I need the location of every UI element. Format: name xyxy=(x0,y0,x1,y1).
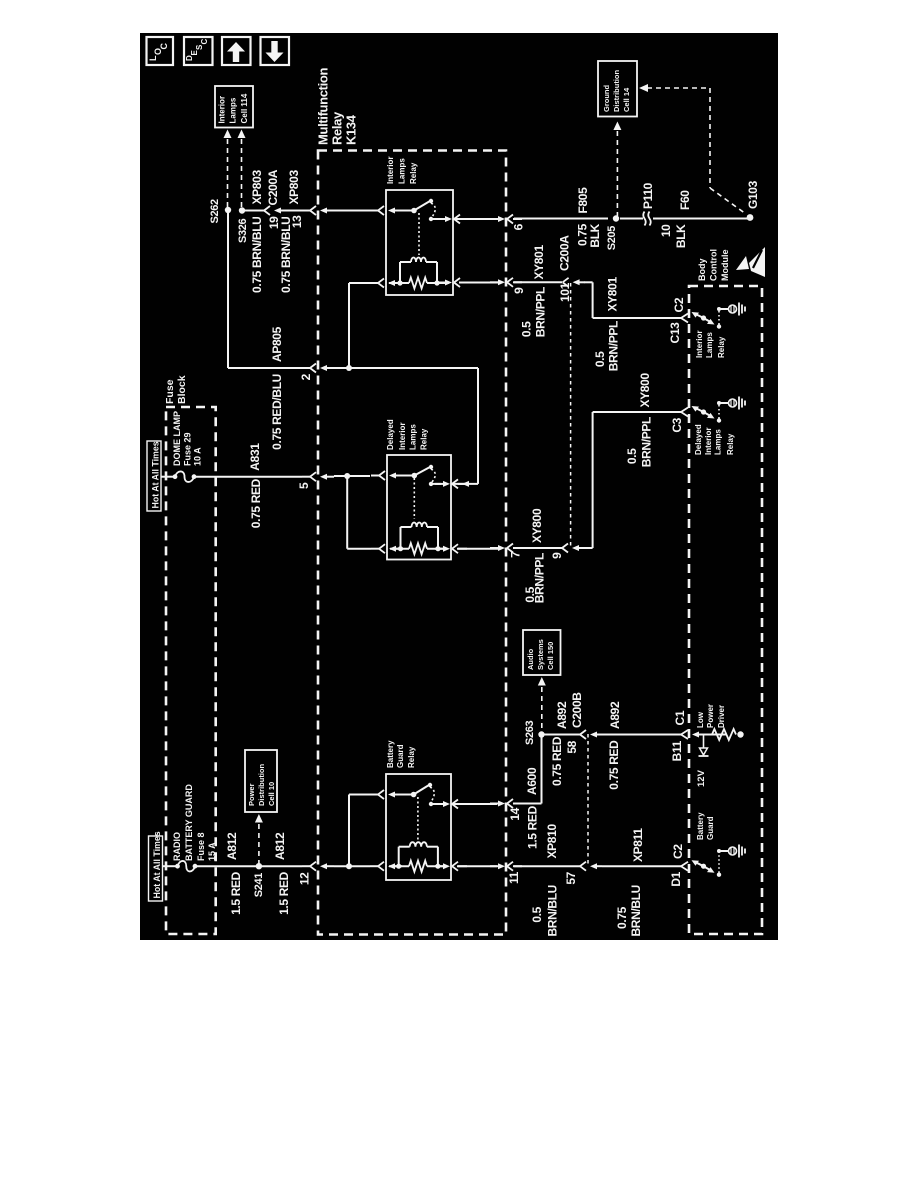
svg-text:BLK: BLK xyxy=(674,224,688,248)
wire pin9 to C200A 101 xyxy=(514,281,562,283)
svg-text:Power: Power xyxy=(706,704,715,728)
wire S241 to K134 pin12 xyxy=(262,865,302,867)
zener 12V xyxy=(703,735,705,749)
svg-text:Interior: Interior xyxy=(386,156,395,184)
relay box Delayed Interior Lamps Relay xyxy=(387,455,451,560)
svg-text:1.5 RED: 1.5 RED xyxy=(229,871,243,915)
svg-text:BRN/PPL: BRN/PPL xyxy=(640,417,654,467)
ground G103 xyxy=(747,214,754,221)
dashed arrow S241 to Cell 10 xyxy=(255,814,263,864)
box Interior Lamps Cell 114 xyxy=(215,86,253,128)
svg-text:BRN/BLU: BRN/BLU xyxy=(546,885,560,937)
relay box Battery Guard Relay xyxy=(386,774,451,880)
svg-text:Cell 10: Cell 10 xyxy=(267,782,276,806)
svg-text:Relay: Relay xyxy=(726,433,735,455)
K134 pin2 entry xyxy=(302,367,310,369)
svg-text:Battery: Battery xyxy=(386,740,395,768)
delayed relay switch xyxy=(412,473,418,479)
svg-text:S205: S205 xyxy=(606,226,618,251)
svg-text:0.5: 0.5 xyxy=(625,448,639,464)
body control module dashed box xyxy=(689,286,762,934)
wire pin6 to S205 xyxy=(514,218,608,220)
svg-text:A812: A812 xyxy=(273,832,287,860)
junction pin2/coil bus xyxy=(346,365,352,371)
delayed relay coil exit xyxy=(435,548,444,550)
label Body Control Module xyxy=(697,249,730,281)
svg-text:XP803: XP803 xyxy=(287,170,301,205)
interior relay switch xyxy=(334,210,376,212)
diagram black panel xyxy=(140,33,778,940)
svg-text:C13: C13 xyxy=(668,322,682,344)
svg-text:XP811: XP811 xyxy=(631,828,645,862)
BCM interior lamps relay xyxy=(681,314,688,323)
svg-text:A831: A831 xyxy=(248,443,262,471)
svg-text:Control: Control xyxy=(709,249,719,281)
wire S263 to C200B 58 xyxy=(544,734,580,736)
svg-text:F60: F60 xyxy=(678,190,692,210)
svg-text:C3: C3 xyxy=(670,417,684,432)
junction delayed coil branch xyxy=(344,473,350,479)
svg-text:BRN/PPL: BRN/PPL xyxy=(607,321,621,371)
svg-text:Relay: Relay xyxy=(330,111,345,145)
connector line C200B xyxy=(587,734,589,864)
battery relay coil xyxy=(417,797,419,842)
svg-text:Hot At All Times: Hot At All Times xyxy=(152,831,162,898)
svg-text:0.5: 0.5 xyxy=(530,906,544,922)
svg-text:7: 7 xyxy=(509,551,523,558)
svg-text:Interior: Interior xyxy=(695,330,704,358)
svg-text:Guard: Guard xyxy=(706,816,715,840)
svg-text:XP810: XP810 xyxy=(545,824,559,859)
svg-text:58: 58 xyxy=(565,740,579,753)
wire C200A to corner xyxy=(584,281,593,283)
svg-text:0.5: 0.5 xyxy=(593,351,607,367)
connector 101 C200A xyxy=(563,278,569,287)
BCM battery guard relay xyxy=(681,862,688,871)
splice S241 xyxy=(256,863,262,869)
svg-text:Lamps: Lamps xyxy=(714,429,723,455)
svg-text:Block: Block xyxy=(176,375,188,404)
wire C200A19 to K134 pin13 xyxy=(286,210,302,212)
svg-text:Systems: Systems xyxy=(536,639,545,670)
svg-text:10 A: 10 A xyxy=(193,447,203,466)
svg-text:A892: A892 xyxy=(555,701,569,729)
svg-text:Interior: Interior xyxy=(398,422,407,450)
svg-text:15 A: 15 A xyxy=(207,842,217,861)
svg-text:Lamps: Lamps xyxy=(398,158,407,184)
svg-text:Distribution: Distribution xyxy=(257,764,266,806)
svg-text:0.75 RED: 0.75 RED xyxy=(607,740,621,790)
relay box Interior Lamps Relay xyxy=(386,190,453,295)
svg-text:Multifunction: Multifunction xyxy=(316,68,331,145)
svg-text:9: 9 xyxy=(512,287,526,294)
svg-text:1.5 RED: 1.5 RED xyxy=(277,871,291,915)
svg-text:Guard: Guard xyxy=(396,744,405,768)
svg-text:10: 10 xyxy=(659,224,673,237)
connector 19 C200A inline xyxy=(264,206,270,215)
svg-text:Relay: Relay xyxy=(409,162,418,184)
delayed relay coil xyxy=(413,478,415,519)
svg-text:Fuse 29: Fuse 29 xyxy=(183,432,193,466)
wire delayed relay coil exit pin7 xyxy=(490,547,499,549)
svg-text:C1: C1 xyxy=(673,710,687,725)
K134 pin5 entry xyxy=(302,476,310,478)
svg-text:Fuse: Fuse xyxy=(164,379,176,404)
svg-text:C200A: C200A xyxy=(558,235,572,271)
svg-text:Lamps: Lamps xyxy=(409,424,418,450)
svg-text:BLK: BLK xyxy=(588,223,602,247)
wire pin12 bus xyxy=(334,865,370,867)
splice S262 xyxy=(225,207,231,213)
svg-text:G103: G103 xyxy=(746,180,760,209)
svg-text:2: 2 xyxy=(299,373,313,380)
svg-text:BATTERY GUARD: BATTERY GUARD xyxy=(184,784,194,861)
svg-text:A600: A600 xyxy=(525,767,539,795)
svg-text:101: 101 xyxy=(558,282,572,302)
svg-text:Cell 114: Cell 114 xyxy=(240,93,249,123)
svg-text:9: 9 xyxy=(550,552,564,559)
svg-text:C: C xyxy=(200,39,209,45)
wire S326 to C200A 19 xyxy=(243,210,264,212)
wire pin5 to delayed relay xyxy=(334,475,370,477)
interior relay coil xyxy=(418,213,420,255)
svg-text:F805: F805 xyxy=(576,187,590,214)
svg-text:Fuse 8: Fuse 8 xyxy=(196,832,206,861)
svg-text:Battery: Battery xyxy=(696,812,705,840)
dashed arrow S326 to Cell 114 xyxy=(238,130,246,210)
svg-text:Delayed: Delayed xyxy=(386,419,395,450)
connector line C200A xyxy=(570,283,572,546)
svg-text:XY801: XY801 xyxy=(606,277,620,312)
wire C200A9 to corner up xyxy=(584,547,593,549)
delayed relay resistor xyxy=(390,548,409,550)
svg-text:Cell 150: Cell 150 xyxy=(546,642,555,670)
delayed relay output exit xyxy=(435,483,444,485)
svg-text:0.75 RED: 0.75 RED xyxy=(249,478,263,528)
svg-text:C: C xyxy=(159,43,169,50)
svg-text:Delayed: Delayed xyxy=(694,424,703,455)
svg-text:K134: K134 xyxy=(344,114,359,145)
svg-text:S263: S263 xyxy=(524,720,536,745)
svg-text:C200B: C200B xyxy=(570,692,584,728)
svg-text:Interior: Interior xyxy=(704,427,713,455)
battery relay switch xyxy=(411,792,417,798)
svg-text:5: 5 xyxy=(297,482,311,489)
wire coil line into interior relay xyxy=(349,282,370,284)
BCM low power driver resistor xyxy=(697,734,712,736)
K134 pin13 entry xyxy=(302,210,310,212)
wire pin2 bus to junction xyxy=(334,367,478,369)
fuse block dashed box xyxy=(166,407,216,934)
button scroll-down xyxy=(261,37,290,65)
wire C200B to BCM D1 xyxy=(602,865,681,867)
interior relay pin9 exit xyxy=(437,282,446,284)
svg-text:Lamps: Lamps xyxy=(229,97,238,123)
svg-text:XY800: XY800 xyxy=(530,508,544,543)
svg-text:BRN/PPL: BRN/PPL xyxy=(534,287,548,337)
svg-text:XP803: XP803 xyxy=(250,170,264,205)
K134 pin6 exit xyxy=(490,218,499,220)
svg-text:1.5 RED: 1.5 RED xyxy=(526,805,540,849)
svg-text:Low: Low xyxy=(696,711,705,728)
box Ground Distribution Cell 14 xyxy=(598,61,637,117)
svg-text:0.75 RED: 0.75 RED xyxy=(550,736,564,786)
fuse F29 DOME LAMP xyxy=(161,411,203,482)
interior relay resistor xyxy=(389,282,409,284)
battery relay resistor xyxy=(389,865,409,867)
button LOC xyxy=(147,37,174,65)
svg-text:XY801: XY801 xyxy=(532,245,546,280)
svg-text:Body: Body xyxy=(697,259,707,282)
svg-text:0.5: 0.5 xyxy=(520,321,534,337)
K134 pin11 exit xyxy=(490,865,499,867)
label Hot At All Times (radio) xyxy=(149,831,163,901)
svg-text:13: 13 xyxy=(290,215,304,228)
wire pin14 to corner up S263 xyxy=(514,803,542,805)
splice S205 xyxy=(613,215,619,221)
junction battery relay branch xyxy=(346,863,352,869)
svg-text:Power: Power xyxy=(247,783,256,806)
svg-text:RADIO: RADIO xyxy=(172,832,182,861)
svg-text:C2: C2 xyxy=(671,844,685,859)
wire S205 to P110 xyxy=(620,218,643,220)
K134 pin14 exit xyxy=(490,803,499,805)
splice S326 xyxy=(239,207,245,213)
wire AP805 to K134 pin2 xyxy=(270,367,302,369)
label Multifunction Relay K134 xyxy=(316,68,359,145)
multifunction relay K134 dashed box xyxy=(318,151,506,935)
svg-text:S262: S262 xyxy=(209,199,221,224)
wire branch up to battery relay switch xyxy=(348,795,350,867)
BCM B11 entry xyxy=(681,730,688,739)
dashed arrow S205 to Cell 14 xyxy=(613,122,621,217)
svg-text:A812: A812 xyxy=(225,832,239,860)
svg-text:6: 6 xyxy=(512,223,526,230)
connector 58 C200B xyxy=(580,730,586,739)
logo triangle mark xyxy=(736,247,765,277)
svg-text:Relay: Relay xyxy=(420,428,429,450)
svg-text:BRN/PPL: BRN/PPL xyxy=(533,553,547,603)
wire C200B to BCM B11 xyxy=(602,734,681,736)
svg-text:Relay: Relay xyxy=(407,746,416,768)
box Audio Systems Cell 150 xyxy=(523,630,561,675)
label Fuse Block xyxy=(164,375,188,404)
svg-text:BRN/BLU: BRN/BLU xyxy=(629,885,643,937)
svg-text:12V: 12V xyxy=(696,769,707,787)
dashed arrow S262 to Cell 114 xyxy=(224,130,232,209)
svg-text:Relay: Relay xyxy=(717,336,726,358)
svg-text:57: 57 xyxy=(564,871,578,884)
wire fuse29 to K134 pin5 xyxy=(194,476,302,478)
button scroll-up xyxy=(222,37,251,65)
interior relay pin6 exit xyxy=(437,218,446,220)
grommet P110 xyxy=(643,212,651,226)
svg-text:Lamps: Lamps xyxy=(705,332,714,358)
svg-text:Driver: Driver xyxy=(717,705,726,728)
wire S262 down to corner xyxy=(227,213,229,368)
wire pin7 to C200A 9 xyxy=(514,547,562,549)
svg-text:Distribution: Distribution xyxy=(612,70,621,112)
label Hot At All Times (dome) xyxy=(147,441,161,511)
svg-text:C2: C2 xyxy=(672,297,686,312)
svg-text:14: 14 xyxy=(508,807,522,820)
battery relay output exit xyxy=(435,803,444,805)
battery relay coil exit pin11 xyxy=(435,865,444,867)
svg-text:XY800: XY800 xyxy=(638,373,652,408)
wire P110 to G103 xyxy=(653,218,748,220)
svg-text:Hot At All Times: Hot At All Times xyxy=(151,441,161,508)
K134 pin12 entry xyxy=(302,865,310,867)
svg-text:0.75: 0.75 xyxy=(615,906,629,929)
svg-text:C200A: C200A xyxy=(266,169,280,205)
svg-text:0.75 BRN/BLU: 0.75 BRN/BLU xyxy=(250,217,264,293)
svg-text:Cell 14: Cell 14 xyxy=(622,87,631,112)
dashed path G103 to Cell 14 xyxy=(639,84,746,214)
wire pin11 to C200B 57 xyxy=(514,865,580,867)
wire branch down to delayed coil xyxy=(346,476,348,549)
button DESC xyxy=(184,37,213,65)
svg-text:Audio: Audio xyxy=(526,648,535,670)
K134 pin9 exit xyxy=(490,281,499,283)
svg-text:Module: Module xyxy=(720,250,730,282)
svg-text:12: 12 xyxy=(298,872,312,885)
fuse F8 RADIO BATTERY GUARD xyxy=(163,784,218,872)
svg-text:DOME LAMP: DOME LAMP xyxy=(172,411,182,466)
box Power Distribution Cell 10 xyxy=(245,750,277,812)
svg-text:0.75 RED/BLU: 0.75 RED/BLU xyxy=(270,374,284,450)
svg-text:Ground: Ground xyxy=(602,85,611,112)
svg-text:P110: P110 xyxy=(641,182,655,209)
BCM delayed interior lamps relay xyxy=(681,408,688,417)
svg-text:S326: S326 xyxy=(237,218,249,243)
svg-text:D1: D1 xyxy=(669,871,683,886)
svg-text:AP805: AP805 xyxy=(270,326,284,362)
wire fuse8 to S241 xyxy=(195,865,256,867)
svg-text:B11: B11 xyxy=(670,740,684,761)
svg-text:S241: S241 xyxy=(253,873,265,898)
svg-text:Interior: Interior xyxy=(218,96,227,124)
splice S263 xyxy=(538,731,544,737)
wire pin13 to interior relay xyxy=(334,210,370,212)
dashed arrow S263 to Cell 150 xyxy=(538,677,546,729)
svg-text:11: 11 xyxy=(507,871,521,884)
wire junction up to coil line xyxy=(348,283,350,368)
svg-text:A892: A892 xyxy=(608,701,622,729)
connector 57 C200B xyxy=(580,862,586,871)
connector 9 C200A xyxy=(562,544,568,553)
